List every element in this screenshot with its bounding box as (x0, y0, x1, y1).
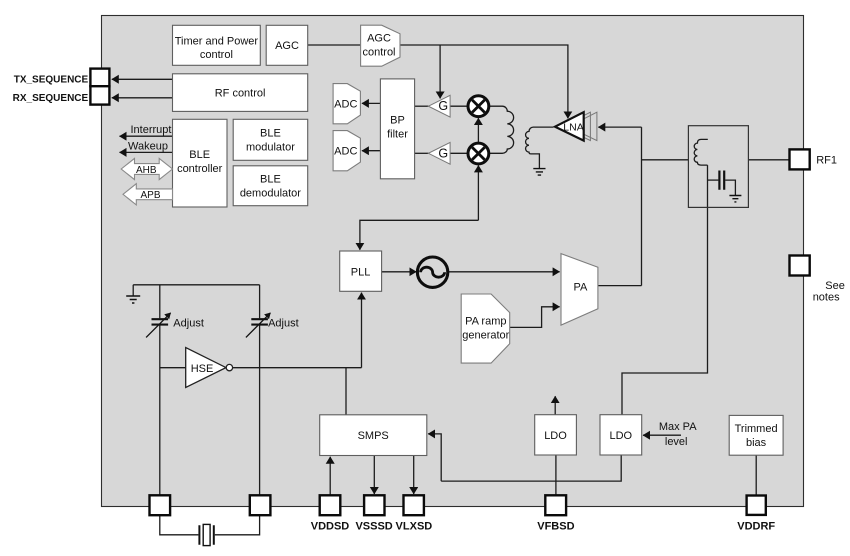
svg-text:modulator: modulator (246, 142, 295, 154)
svg-text:VDDRF: VDDRF (737, 521, 775, 533)
svg-text:ADC: ADC (334, 146, 357, 158)
svg-text:RX_SEQUENCE: RX_SEQUENCE (13, 93, 89, 104)
svg-text:SMPS: SMPS (358, 430, 389, 442)
svg-text:VLXSD: VLXSD (396, 521, 433, 533)
svg-text:controller: controller (177, 163, 223, 175)
svg-text:notes: notes (813, 291, 840, 303)
svg-text:filter: filter (387, 128, 408, 140)
svg-text:PLL: PLL (351, 266, 371, 278)
svg-text:Max PA: Max PA (659, 421, 697, 433)
svg-text:G: G (438, 99, 448, 113)
svg-text:LNA: LNA (563, 122, 583, 134)
svg-text:level: level (665, 436, 688, 448)
svg-text:Adjust: Adjust (268, 317, 299, 329)
svg-text:Timer and Power: Timer and Power (175, 35, 259, 47)
svg-text:demodulator: demodulator (240, 187, 301, 199)
svg-text:AGC: AGC (275, 40, 299, 52)
svg-text:AHB: AHB (136, 165, 157, 176)
svg-text:See: See (825, 280, 845, 292)
svg-text:ADC: ADC (334, 99, 357, 111)
svg-text:PA: PA (573, 281, 588, 293)
svg-text:VFBSD: VFBSD (537, 521, 574, 533)
svg-text:TX_SEQUENCE: TX_SEQUENCE (14, 75, 89, 86)
svg-text:control: control (362, 46, 395, 58)
svg-text:bias: bias (746, 437, 767, 449)
svg-text:HSE: HSE (191, 363, 214, 375)
svg-text:BP: BP (390, 114, 405, 126)
svg-text:VSSSD: VSSSD (355, 521, 392, 533)
svg-text:LDO: LDO (544, 430, 567, 442)
svg-text:LDO: LDO (609, 430, 632, 442)
svg-text:AGC: AGC (367, 33, 391, 45)
svg-text:RF control: RF control (215, 87, 266, 99)
svg-text:RF1: RF1 (816, 154, 837, 166)
svg-text:VDDSD: VDDSD (311, 521, 350, 533)
svg-text:BLE: BLE (260, 173, 281, 185)
svg-text:PA ramp: PA ramp (465, 315, 506, 327)
svg-text:Adjust: Adjust (173, 317, 204, 329)
svg-text:Trimmed: Trimmed (735, 423, 778, 435)
svg-text:control: control (200, 49, 233, 61)
svg-text:APB: APB (140, 190, 160, 201)
svg-text:generator: generator (462, 330, 509, 342)
svg-text:G: G (438, 146, 448, 160)
svg-text:BLE: BLE (189, 149, 210, 161)
svg-text:Interrupt: Interrupt (131, 124, 172, 136)
svg-text:Wakeup: Wakeup (128, 141, 168, 153)
svg-text:BLE: BLE (260, 128, 281, 140)
